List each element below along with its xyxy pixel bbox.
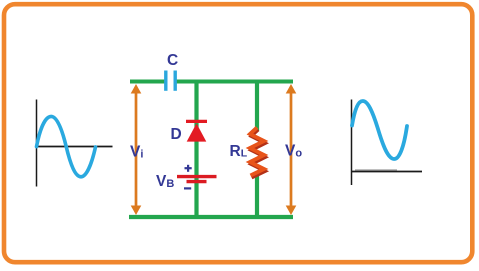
input waveform Vi axes — [36, 100, 113, 187]
battery plus sign — [185, 165, 192, 172]
battery minus sign — [184, 187, 191, 189]
Vi double arrow — [131, 84, 142, 215]
resistor RL zigzag — [250, 128, 264, 176]
wire resistor branch bottom — [255, 174, 259, 217]
wire top-right segment — [177, 80, 294, 84]
wire top-left segment — [130, 80, 165, 84]
battery VB short plate — [187, 180, 207, 183]
diode D cathode bar — [186, 120, 207, 123]
output waveform Vo axes — [351, 100, 422, 186]
svg-text:C: C — [167, 52, 178, 69]
svg-text:D: D — [171, 126, 182, 143]
output waveform Vo gray baseline — [355, 169, 397, 171]
diode D triangle — [187, 123, 207, 141]
wire bottom segment — [129, 215, 293, 219]
wire middle branch (diode/battery) — [194, 82, 198, 218]
resistor RL zigzag shadow — [251, 130, 265, 178]
capacitor C plates — [166, 71, 175, 91]
battery VB long plate — [177, 175, 217, 178]
output waveform Vo clamped sine curve — [352, 101, 407, 159]
wire resistor branch top — [255, 82, 259, 132]
Vo double arrow — [286, 84, 297, 215]
input waveform Vi sine curve — [37, 116, 96, 176]
